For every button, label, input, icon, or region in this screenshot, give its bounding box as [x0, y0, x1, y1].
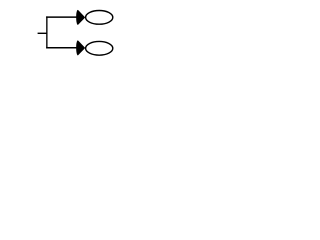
- top branch wire: [46, 16, 78, 18]
- input stub wire: [38, 32, 48, 34]
- bottom node ellipse: [86, 41, 113, 55]
- bottom branch wire: [46, 47, 78, 49]
- top node ellipse: [86, 11, 113, 25]
- top arrowhead: [77, 11, 85, 25]
- bottom arrowhead: [77, 41, 85, 55]
- vertical branch wire: [46, 16, 48, 48]
